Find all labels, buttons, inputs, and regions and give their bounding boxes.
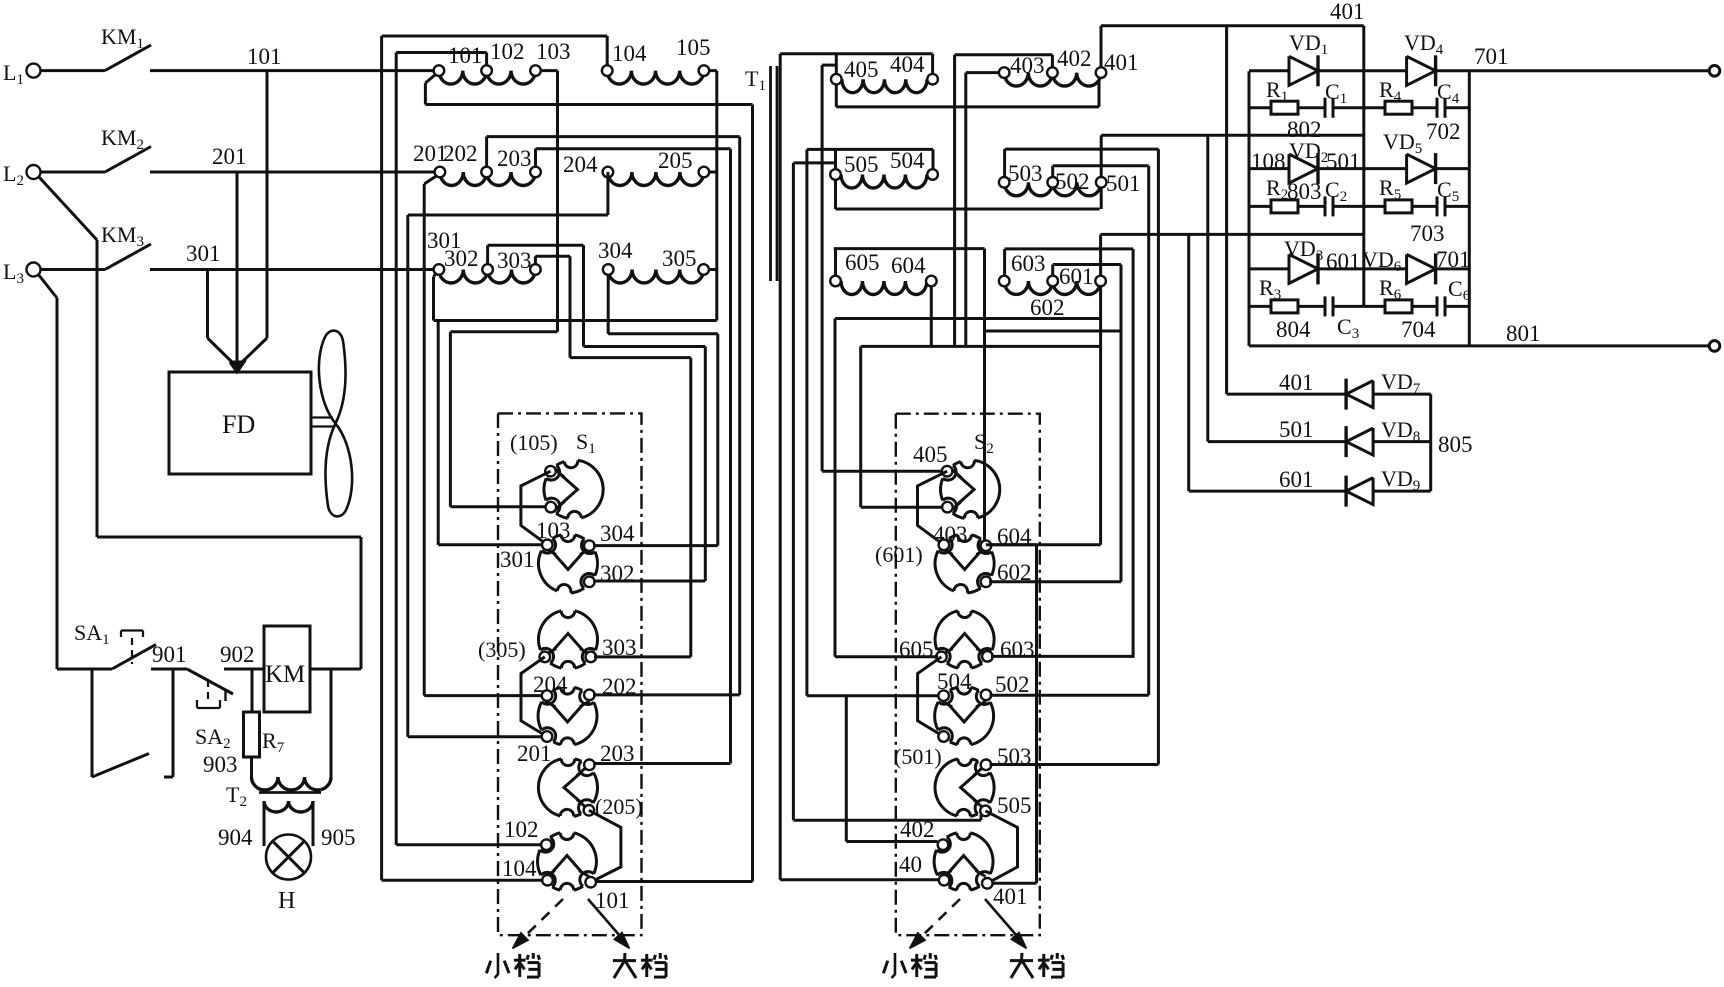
wire 601 to VD9 <box>1187 234 1190 491</box>
wire 602 riser <box>1051 265 1054 276</box>
svg-text:504: 504 <box>890 148 925 173</box>
transformer T2 primary <box>252 777 332 790</box>
svg-text:603: 603 <box>1000 637 1035 662</box>
svg-text:(501): (501) <box>894 744 942 769</box>
wire 601 desc <box>1099 286 1102 318</box>
wire 201 hook <box>424 176 437 185</box>
terminal 605 <box>830 276 841 287</box>
wire jog top <box>986 543 1037 546</box>
arrow large range S1 <box>588 899 620 936</box>
terminal cam3 br <box>586 652 597 663</box>
terminal 303 <box>530 264 541 275</box>
svg-text:501: 501 <box>1326 149 1361 174</box>
capacitor C1 <box>1324 98 1327 118</box>
svg-text:502: 502 <box>1055 169 1090 194</box>
wire 603 down <box>1132 249 1135 658</box>
wire 505 tee <box>793 161 835 164</box>
svg-text:801: 801 <box>1506 321 1541 346</box>
terminal s2cam4 bl <box>938 731 949 742</box>
wire L1 to 101 <box>150 69 434 72</box>
bus y333 <box>608 332 718 335</box>
wire KM right <box>310 668 361 671</box>
svg-text:101: 101 <box>595 888 630 913</box>
terminal 801 <box>1709 341 1720 352</box>
switch KM2 <box>41 171 105 174</box>
winding 101-103 <box>439 71 487 85</box>
wire 103 to cam1 <box>449 332 452 507</box>
terminal s2cam3 bl <box>936 652 947 663</box>
wire VD1 row <box>1249 69 1289 72</box>
wire 602 down <box>1120 265 1123 582</box>
diode VD5 <box>1407 154 1436 183</box>
terminal 105 <box>699 65 710 76</box>
wire 503 riser <box>1003 149 1006 177</box>
svg-text:405: 405 <box>913 442 948 467</box>
arrow small range S1 <box>523 899 563 938</box>
svg-text:301: 301 <box>186 241 221 266</box>
wire VD5 row <box>1364 167 1407 170</box>
terminal s2cam6 br <box>982 878 993 889</box>
terminal s2cam3 br <box>982 651 993 662</box>
terminal 201 <box>435 167 446 178</box>
svg-text:701: 701 <box>1474 44 1509 69</box>
terminal 101 <box>434 65 445 76</box>
svg-text:201: 201 <box>212 144 247 169</box>
winding 505-504 <box>841 175 927 189</box>
wire 202 to cam4 <box>593 693 740 696</box>
resistor R6 <box>1364 305 1385 308</box>
terminal 504 <box>927 169 938 180</box>
wire 501 to VD8 <box>1206 135 1209 441</box>
wire hex cam3-cam4 <box>521 657 547 737</box>
wire 601 riser <box>1099 234 1102 276</box>
svg-text:602: 602 <box>1030 295 1065 320</box>
wire 303 to cam3 <box>594 655 691 658</box>
terminal s2cam2 br <box>981 577 992 588</box>
wire 404 into cam6 <box>780 878 938 881</box>
terminal cam4 tr <box>584 690 595 701</box>
wire bottom-left to SA1 <box>57 668 112 671</box>
switch KM1 <box>41 69 105 72</box>
svg-text:FD: FD <box>222 410 255 439</box>
wire 603 from cam3 <box>991 655 1133 658</box>
terminal cam4 tl <box>542 690 553 701</box>
diode VD8 <box>1346 428 1373 455</box>
wire VD6 out <box>1436 267 1470 270</box>
diode VD7 <box>1346 381 1373 408</box>
svg-text:402: 402 <box>1057 46 1092 71</box>
svg-text:201: 201 <box>517 741 552 766</box>
rail y331 <box>985 330 1121 333</box>
FD feed arrow <box>208 338 235 364</box>
terminal cam4 bl <box>542 731 553 742</box>
wire 604 from cam2 <box>989 543 1101 546</box>
terminal s2cam2 tr <box>981 540 992 551</box>
wire 202 riser <box>485 137 488 167</box>
label dadang S2 <box>1010 959 1033 962</box>
wire 205 stub <box>709 171 717 174</box>
terminal s2cam1 top <box>942 466 953 477</box>
wire 602 to cam2 <box>989 580 1121 583</box>
wire 701 out <box>1436 69 1710 72</box>
switch block S2 frame <box>896 414 1040 936</box>
wire 302 to cam2 <box>593 580 705 583</box>
bus y346 right <box>861 345 1101 348</box>
switch SA2 <box>187 669 233 694</box>
terminal 204 <box>603 167 614 178</box>
wire 304 drop <box>607 275 610 334</box>
cam S1-3 <box>538 611 597 668</box>
svg-text:603: 603 <box>1011 251 1046 276</box>
motor FD <box>169 372 311 474</box>
wire R7 to T2 <box>250 757 253 777</box>
svg-text:503: 503 <box>1008 161 1043 186</box>
terminal 603 <box>999 276 1010 287</box>
wire L3 down-left branch <box>38 274 57 298</box>
svg-text:304: 304 <box>598 238 633 263</box>
wire T2 secondary legs <box>263 801 266 846</box>
svg-text:302: 302 <box>444 246 479 271</box>
wire 402 riser <box>1051 55 1054 68</box>
rail y318 <box>835 317 1101 320</box>
cam S2-2 <box>935 535 994 593</box>
svg-text:(205): (205) <box>595 794 643 819</box>
diode VD2 <box>1289 154 1318 183</box>
terminal L2 <box>27 165 41 179</box>
terminal s2cam5 tr <box>981 760 992 771</box>
terminal 305 <box>698 264 709 275</box>
wire 403 left <box>966 71 999 74</box>
cam S1-1 <box>544 460 603 518</box>
terminal cam6 tl <box>541 839 552 850</box>
wire 603 riser <box>1003 249 1006 276</box>
diode VD1 <box>1289 56 1318 85</box>
resistor R2 <box>1249 205 1271 208</box>
wire VD7 feed vertical <box>1225 26 1228 394</box>
cam S1-4 <box>538 687 597 744</box>
fan shaft <box>311 416 333 418</box>
winding 201-203 <box>440 172 487 186</box>
label dadang S1 <box>613 959 636 962</box>
wire 403 branch down to S2 <box>859 346 862 507</box>
terminal s2cam1 bottom <box>942 502 953 513</box>
wire down x361 <box>360 537 363 669</box>
wire 605 branch down to S2 <box>834 319 837 657</box>
terminal 202 <box>481 167 492 178</box>
bus y331 <box>450 330 557 333</box>
svg-text:501: 501 <box>1106 171 1141 196</box>
terminal L1 <box>27 64 41 78</box>
svg-text:104: 104 <box>612 41 647 66</box>
cam S2-6 <box>934 833 993 890</box>
wire 201 into cam4 <box>408 735 542 738</box>
terminal s2cam4 tr <box>981 690 992 701</box>
svg-text:404: 404 <box>890 52 925 77</box>
terminal cam5 tr <box>584 760 595 771</box>
svg-text:505: 505 <box>997 793 1032 818</box>
label xiaodang S2 <box>892 953 895 978</box>
cam S2-5 <box>935 759 994 817</box>
svg-text:905: 905 <box>321 825 356 850</box>
winding 605-604 <box>841 281 927 295</box>
svg-text:205: 205 <box>658 148 693 173</box>
svg-text:601: 601 <box>1059 264 1094 289</box>
wire 401 riser to bus <box>1100 26 1103 68</box>
terminal 401 <box>1096 67 1107 78</box>
wire 401 to VD7 <box>1227 393 1347 396</box>
wire VD6 row <box>1364 267 1407 270</box>
wire VD5 out <box>1436 167 1470 170</box>
wire 105 stub <box>709 69 717 72</box>
svg-text:601: 601 <box>1326 249 1361 274</box>
cam S2-4 <box>935 687 994 744</box>
parallel switch lower contact <box>91 669 94 777</box>
svg-text:401: 401 <box>1104 50 1139 75</box>
svg-text:502: 502 <box>995 672 1030 697</box>
svg-text:102: 102 <box>504 817 539 842</box>
wire 401 up jog <box>1035 545 1038 884</box>
wire rail 404 <box>780 52 932 55</box>
node 902 drop to R7 <box>251 669 254 712</box>
wire 405 riser <box>835 54 838 74</box>
switch SA1 <box>112 645 156 670</box>
svg-text:704: 704 <box>1401 317 1436 342</box>
svg-text:H: H <box>278 888 295 914</box>
wire 101 from cam6 <box>595 880 753 883</box>
wire VD3 row <box>1249 267 1289 270</box>
svg-text:304: 304 <box>600 521 635 546</box>
wire 405 tee to S2 <box>822 64 836 67</box>
bus y209 <box>836 208 1100 211</box>
resistor R3 <box>1249 305 1271 308</box>
svg-text:805: 805 <box>1438 432 1473 457</box>
arrow large range S2 <box>985 899 1017 936</box>
svg-text:604: 604 <box>891 253 926 278</box>
wire 103 drop <box>541 69 558 72</box>
switch block S1 frame <box>498 413 642 935</box>
wire 505 riser <box>834 149 837 169</box>
terminal 604 <box>926 276 937 287</box>
resistor R4 <box>1364 106 1385 109</box>
svg-text:401: 401 <box>1330 0 1365 24</box>
cam S1-2 <box>539 535 598 593</box>
terminal 304 <box>603 264 614 275</box>
wire 605 into cam3 <box>835 655 938 658</box>
wire 902 <box>224 668 264 671</box>
svg-text:(601): (601) <box>875 542 923 567</box>
svg-text:904: 904 <box>218 825 253 850</box>
svg-text:305: 305 <box>662 246 697 271</box>
diode VD9 <box>1346 478 1373 505</box>
wire 102 into cam6 <box>396 843 541 846</box>
wire 502 to cam4 <box>990 694 1149 697</box>
terminal 403 <box>999 67 1010 78</box>
wire across y537 <box>97 536 361 539</box>
bus y346 <box>584 345 706 348</box>
svg-text:703: 703 <box>1410 221 1445 246</box>
bus y320 <box>434 319 717 322</box>
terminal 503 <box>999 177 1010 188</box>
svg-text:903: 903 <box>203 752 238 777</box>
svg-text:901: 901 <box>152 642 187 667</box>
bus 401 top <box>1101 24 1364 27</box>
svg-text:108: 108 <box>1251 149 1286 174</box>
wire 301 into cam2 <box>438 543 542 546</box>
svg-text:301: 301 <box>500 547 535 572</box>
arrow small range S2 <box>920 899 960 938</box>
svg-text:505: 505 <box>844 152 879 177</box>
svg-text:105: 105 <box>676 35 711 60</box>
wire 305 stub <box>709 268 717 271</box>
wire L3 to 301 <box>150 268 434 271</box>
cam S1-5 <box>538 759 597 817</box>
svg-text:40: 40 <box>899 852 922 877</box>
wire 303 down to S1 <box>689 358 692 657</box>
wire 601 link down <box>1099 319 1102 545</box>
svg-text:KM: KM <box>265 661 305 688</box>
wire 203 down <box>729 149 732 764</box>
bus y106 <box>836 105 1099 108</box>
resistor R7 <box>244 712 260 757</box>
terminal 701 <box>1709 66 1720 77</box>
wire 301 branch to S1 <box>437 321 440 545</box>
wire 104 into cam6 <box>382 879 542 882</box>
svg-text:403: 403 <box>1010 53 1045 78</box>
capacitor C6 <box>1436 296 1439 316</box>
diode VD3 <box>1289 254 1318 283</box>
wire hex cam5-cam6 <box>589 810 621 882</box>
svg-text:902: 902 <box>220 642 255 667</box>
resistor R1 <box>1249 106 1271 109</box>
wire 201 drop to FD arrow <box>236 172 239 338</box>
wire hex s2 cam5-cam6 <box>986 811 1018 883</box>
wire 101 branch down <box>751 105 754 882</box>
wire 101 drop to FD arrow <box>266 71 269 338</box>
terminal 301 <box>434 264 445 275</box>
wire 901 <box>151 668 187 671</box>
label xiaodang S1 <box>495 953 498 978</box>
wire 204 into cam4 <box>424 694 542 697</box>
bus 302 <box>488 244 584 247</box>
cam S2-1 <box>941 460 1000 518</box>
terminal 602 <box>1047 276 1058 287</box>
bus 801 <box>1249 344 1710 347</box>
terminal cam2 tr <box>584 540 595 551</box>
wire 203 riser <box>534 149 537 167</box>
wire 301 drop to FD arrow <box>206 270 209 339</box>
cam S2-3 <box>935 611 994 668</box>
svg-text:303: 303 <box>497 248 532 273</box>
contactor coil KM <box>264 626 310 712</box>
wire 202 down <box>738 137 741 695</box>
svg-text:203: 203 <box>497 146 532 171</box>
svg-text:204: 204 <box>563 152 598 177</box>
terminal L3 <box>27 263 41 277</box>
winding 405-404 <box>842 79 927 93</box>
terminal cam5 br <box>584 805 595 816</box>
terminal cam2 br <box>584 577 595 588</box>
wire 401 desc <box>1098 78 1101 107</box>
terminal s2cam6 tl <box>938 839 949 850</box>
fan blades <box>319 331 346 424</box>
wire 605 riser <box>834 249 837 276</box>
wire 201 branch down <box>406 215 409 737</box>
wire 402 into cam5 <box>793 819 981 822</box>
wire 405 into S2 cam1 <box>822 470 942 473</box>
lamp H <box>266 835 311 880</box>
wire VD7 out <box>1373 393 1431 396</box>
wire 301 hook <box>434 273 437 277</box>
terminal 205 <box>699 167 710 178</box>
wire 401 from cam6 <box>992 882 1037 885</box>
svg-text:103: 103 <box>536 39 571 64</box>
resistor R5 <box>1364 205 1385 208</box>
bus 303 <box>535 255 570 258</box>
winding 503-501 <box>1004 182 1052 196</box>
svg-text:804: 804 <box>1276 317 1311 342</box>
wire mid vertical <box>1362 26 1365 307</box>
terminal 402 <box>1047 67 1058 78</box>
winding 403-401 <box>1004 73 1052 87</box>
winding 603-601 <box>1004 281 1052 295</box>
wire 503 to cam5 <box>990 763 1159 766</box>
terminal 601 <box>1095 276 1106 287</box>
wire 504 into cam4 <box>807 694 939 697</box>
terminal cam6 bl <box>542 875 553 886</box>
terminal 502 <box>1047 177 1058 188</box>
wire 403 into cam1 lower <box>861 506 943 509</box>
diode VD4 <box>1407 56 1436 85</box>
winding 104-105 <box>607 71 704 85</box>
terminal 505 <box>830 169 841 180</box>
svg-text:605: 605 <box>845 250 880 275</box>
bus y215 <box>408 214 608 217</box>
terminal cam3 bl <box>540 652 551 663</box>
wire 502 down <box>1147 166 1150 696</box>
wire 503 down <box>1157 149 1160 764</box>
wire 302 riser <box>486 245 489 264</box>
wire hex s2 cam1-cam2 <box>918 471 948 545</box>
wire 402 into cam6 <box>846 840 937 843</box>
svg-text:101: 101 <box>247 44 282 69</box>
wire 604 rail <box>834 247 985 250</box>
terminal 501 <box>1096 177 1107 188</box>
terminal cam6 br <box>585 877 596 888</box>
winding 204-205 <box>608 172 704 186</box>
svg-text:(305): (305) <box>478 637 526 662</box>
svg-text:402: 402 <box>900 817 935 842</box>
terminal 302 <box>482 264 493 275</box>
wire VD8 out <box>1373 440 1431 443</box>
terminal s2cam6 bl <box>939 875 950 886</box>
svg-text:102: 102 <box>490 39 525 64</box>
terminal 405 <box>831 74 842 85</box>
capacitor C4 <box>1436 98 1439 118</box>
svg-text:401: 401 <box>1279 370 1314 395</box>
wire hex s2 cam3-cam4 <box>918 657 944 737</box>
svg-text:401: 401 <box>993 884 1028 909</box>
wire top loop 104 <box>382 35 608 38</box>
bus y357 <box>570 356 691 359</box>
wire 501 desc <box>1100 188 1103 209</box>
bus 805 <box>1429 394 1432 491</box>
svg-text:202: 202 <box>443 141 478 166</box>
wire VD2 row <box>1249 167 1289 170</box>
terminal 104 <box>602 65 613 76</box>
terminal cam2 tl <box>542 540 553 551</box>
wire hex cam1-cam2 <box>521 471 551 545</box>
wire 101 hook to bus 104 <box>425 74 436 83</box>
